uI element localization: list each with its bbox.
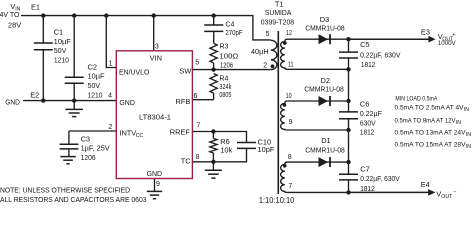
svg-text:GND: GND — [119, 98, 134, 107]
svg-text:1000V: 1000V — [438, 40, 457, 47]
svg-text:0.5mA TO 2.5mA AT 4V: 0.5mA TO 2.5mA AT 4V — [395, 105, 465, 112]
svg-text:D1: D1 — [321, 136, 330, 145]
svg-text:0.22µF, 630V: 0.22µF, 630V — [360, 51, 400, 60]
svg-text:C7: C7 — [360, 164, 369, 173]
svg-text:IN: IN — [464, 107, 469, 113]
svg-text:CMMR1U-08: CMMR1U-08 — [305, 24, 345, 33]
svg-text:CMMR1U-08: CMMR1U-08 — [304, 85, 344, 94]
svg-text:2: 2 — [108, 124, 112, 131]
svg-text:1812: 1812 — [360, 128, 374, 137]
svg-text:0.5mA TO 15mA AT 28V: 0.5mA TO 15mA AT 28V — [395, 142, 467, 149]
svg-text:2: 2 — [263, 63, 267, 70]
svg-text:3: 3 — [155, 43, 159, 50]
svg-text:1812: 1812 — [360, 184, 374, 193]
svg-text:−: − — [453, 189, 456, 195]
svg-text:E1: E1 — [31, 2, 40, 11]
svg-text:C4: C4 — [225, 21, 234, 28]
svg-text:E4: E4 — [421, 180, 430, 189]
svg-text:C2: C2 — [88, 62, 97, 71]
svg-text:1:10:10:10: 1:10:10:10 — [259, 196, 295, 204]
svg-text:9: 9 — [289, 119, 293, 126]
svg-text:1206: 1206 — [220, 62, 233, 69]
svg-text:C5: C5 — [360, 40, 369, 49]
svg-text:9: 9 — [156, 181, 160, 188]
svg-text:5: 5 — [195, 60, 199, 67]
svg-text:IN: IN — [456, 120, 461, 126]
svg-text:0.22µF, 630V: 0.22µF, 630V — [360, 174, 399, 183]
svg-text:10k: 10k — [220, 145, 232, 154]
svg-text:INTV: INTV — [119, 129, 136, 138]
svg-text:GND: GND — [147, 169, 163, 178]
svg-text:7: 7 — [288, 183, 292, 190]
svg-text:IN: IN — [466, 132, 471, 138]
svg-text:C6: C6 — [360, 99, 369, 108]
svg-text:630V: 630V — [360, 118, 376, 127]
svg-text:SW: SW — [179, 66, 191, 75]
svg-text:10µF: 10µF — [88, 72, 106, 81]
svg-text:CC: CC — [136, 133, 144, 139]
svg-text:324k: 324k — [219, 84, 231, 91]
svg-text:ALL RESISTORS AND CAPACITORS A: ALL RESISTORS AND CAPACITORS ARE 0603 — [0, 196, 147, 204]
svg-text:E3: E3 — [421, 27, 430, 36]
svg-text:MIN LOAD 0.5mA: MIN LOAD 0.5mA — [395, 96, 437, 103]
svg-text:10µF: 10µF — [54, 37, 72, 46]
svg-text:GND: GND — [5, 97, 20, 106]
svg-text:IN: IN — [466, 144, 471, 150]
svg-text:4: 4 — [108, 93, 112, 100]
svg-text:5: 5 — [266, 31, 270, 38]
svg-text:1210: 1210 — [54, 56, 69, 65]
svg-text:50V: 50V — [54, 46, 67, 55]
svg-text:NOTE: UNLESS OTHERWISE SPECIFI: NOTE: UNLESS OTHERWISE SPECIFIED — [0, 187, 130, 195]
svg-text:OUT: OUT — [441, 194, 453, 200]
svg-text:E2: E2 — [30, 91, 39, 100]
svg-text:LT8304-1: LT8304-1 — [139, 113, 171, 122]
svg-text:100Ω: 100Ω — [219, 53, 238, 60]
svg-text:50V: 50V — [88, 81, 101, 90]
svg-text:R4: R4 — [219, 76, 228, 83]
svg-text:EN/UVLO: EN/UVLO — [119, 68, 150, 77]
svg-text:0805: 0805 — [219, 92, 231, 99]
svg-text:40µH: 40µH — [251, 47, 269, 56]
svg-text:7: 7 — [196, 122, 200, 129]
svg-text:1812: 1812 — [361, 60, 375, 69]
svg-text:1210: 1210 — [88, 91, 103, 100]
svg-text:8: 8 — [288, 154, 292, 161]
svg-text:0.5mA TO 13mA AT 24V: 0.5mA TO 13mA AT 24V — [395, 130, 467, 137]
svg-text:D2: D2 — [321, 76, 330, 85]
svg-text:0399-T208: 0399-T208 — [261, 18, 294, 27]
svg-text:C3: C3 — [81, 134, 90, 143]
svg-text:11: 11 — [288, 62, 294, 69]
svg-text:1µF, 25V: 1µF, 25V — [81, 144, 110, 153]
svg-text:6: 6 — [194, 93, 198, 100]
svg-text:SUMIDA: SUMIDA — [265, 8, 292, 17]
svg-text:1206: 1206 — [81, 153, 96, 162]
svg-text:8: 8 — [196, 154, 200, 161]
svg-text:TC: TC — [181, 156, 192, 165]
svg-text:CMMR1U-08: CMMR1U-08 — [305, 146, 345, 155]
svg-text:VIN: VIN — [150, 54, 162, 63]
svg-text:0.22µF: 0.22µF — [360, 109, 382, 118]
svg-text:+: + — [452, 32, 455, 38]
svg-text:270pF: 270pF — [225, 30, 242, 37]
svg-text:12: 12 — [286, 30, 292, 37]
svg-text:1: 1 — [109, 60, 113, 67]
svg-text:0.5mA TO 8mA AT 12V: 0.5mA TO 8mA AT 12V — [395, 117, 457, 124]
svg-text:4V TO: 4V TO — [0, 10, 20, 19]
svg-text:RREF: RREF — [170, 128, 191, 137]
svg-text:10: 10 — [286, 93, 292, 100]
svg-text:28V: 28V — [8, 20, 21, 29]
svg-text:10pF: 10pF — [258, 145, 275, 154]
svg-text:RFB: RFB — [176, 97, 191, 106]
svg-text:C1: C1 — [54, 28, 63, 37]
svg-text:R3: R3 — [220, 44, 229, 51]
